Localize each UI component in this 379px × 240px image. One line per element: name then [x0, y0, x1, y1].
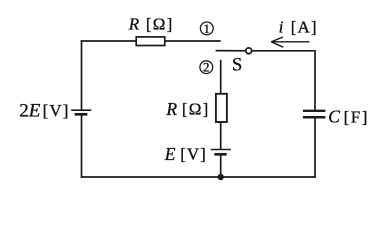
svg-text:[Ω]: [Ω] — [146, 14, 174, 33]
switch S arm — [216, 50, 246, 52]
node 1 marker (circled 1) — [200, 21, 213, 36]
svg-text:[F]: [F] — [344, 108, 369, 127]
svg-text:[Ω]: [Ω] — [182, 100, 210, 119]
svg-text:S: S — [232, 56, 242, 76]
battery 2E (left source) — [71, 110, 91, 114]
wire: top-left horizontal (source to switch terminal 1) — [81, 40, 221, 42]
svg-text:2E: 2E — [19, 100, 41, 121]
wire: right vertical upper (switch to capacitor) — [252, 51, 315, 110]
svg-text:R: R — [165, 99, 177, 119]
svg-text:[V]: [V] — [43, 101, 70, 120]
svg-text:[A]: [A] — [291, 17, 318, 36]
svg-text:i: i — [279, 18, 284, 37]
resistor R2 (middle, R [Ohm]) — [216, 94, 227, 122]
wire: left vertical lower (battery to bottom) — [81, 114, 83, 178]
wire: bottom horizontal — [81, 176, 316, 178]
capacitor C [F] plates — [303, 111, 326, 117]
svg-text:E: E — [164, 144, 176, 164]
wire: middle vertical (battery to junction) — [220, 154, 222, 177]
resistor R1 (top, R [Ohm]) — [136, 37, 165, 46]
svg-text:1: 1 — [204, 21, 211, 36]
svg-text:2: 2 — [203, 60, 210, 75]
wire: middle vertical (resistor to battery) — [220, 121, 222, 150]
junction node (bottom, filled dot) — [218, 174, 224, 180]
wire: right vertical lower (capacitor to bottom) — [314, 117, 316, 178]
current arrow i [A] — [271, 37, 309, 47]
switch S pivot contact (open circle) — [246, 48, 252, 54]
wire: middle vertical (terminal 2 down to resistor) — [220, 60, 222, 95]
svg-text:[V]: [V] — [180, 145, 207, 164]
svg-text:R: R — [128, 15, 140, 34]
battery E (middle source) — [211, 150, 231, 155]
svg-text:C: C — [328, 107, 340, 127]
wire: left vertical upper (source top to battery) — [81, 40, 83, 110]
node 2 marker (circled 2) — [200, 60, 213, 75]
